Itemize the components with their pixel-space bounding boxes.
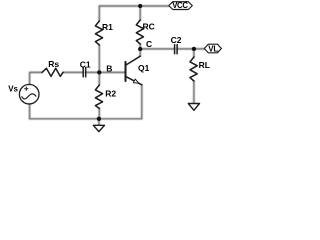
wire R1 bottom lead to node B xyxy=(98,45,100,72)
svg-text:C: C xyxy=(146,39,152,49)
wire C2 to node VL to VL flag xyxy=(177,48,204,50)
wire Vs bottom lead xyxy=(29,104,31,119)
svg-text:Vs: Vs xyxy=(8,85,18,94)
transistor Q1 collector diagonal xyxy=(126,56,140,65)
capacitor C1 xyxy=(82,68,84,77)
wire R2 bottom lead xyxy=(98,108,100,118)
wire RL bottom lead to ground xyxy=(193,81,195,103)
svg-text:R1: R1 xyxy=(102,22,113,32)
svg-text:C1: C1 xyxy=(80,59,91,69)
svg-text:C2: C2 xyxy=(171,35,182,45)
wire bottom rail Vs to emitter corner xyxy=(30,118,142,120)
wire RC top lead xyxy=(139,6,141,20)
svg-text:VL: VL xyxy=(208,44,218,53)
Vs plus sign xyxy=(25,87,28,90)
wire R2 top lead xyxy=(98,72,100,85)
resistor RL xyxy=(190,57,197,81)
wire R1 top lead xyxy=(98,6,100,21)
resistor Rs xyxy=(42,68,63,76)
svg-text:B: B xyxy=(106,63,112,73)
svg-text:Q1: Q1 xyxy=(138,63,150,73)
svg-text:Rs: Rs xyxy=(48,59,59,69)
transistor Q1 base bar xyxy=(125,62,127,81)
svg-text:VCC: VCC xyxy=(172,1,188,10)
voltage source Vs circle xyxy=(19,84,39,104)
wire RL top lead xyxy=(193,49,195,57)
resistor RC xyxy=(136,20,143,44)
wire top rail R1 top to RC top to VCC flag xyxy=(99,5,169,7)
capacitor C2 xyxy=(174,45,176,54)
transistor Q1 emitter arrowhead xyxy=(133,79,139,83)
junction dot node C xyxy=(138,47,142,51)
ground symbol right xyxy=(188,104,199,111)
resistor R1 xyxy=(95,21,102,45)
svg-text:RC: RC xyxy=(143,22,155,32)
resistor R2 xyxy=(95,85,102,108)
transistor Q1 emitter diagonal xyxy=(126,77,142,85)
svg-text:RL: RL xyxy=(199,60,210,70)
ground symbol left xyxy=(93,125,104,131)
wire RC bottom lead to node C xyxy=(139,44,141,49)
junction dot bottom ground xyxy=(97,117,101,121)
VL output flag xyxy=(204,44,221,53)
wire ground stub left xyxy=(98,119,100,125)
VCC power flag xyxy=(169,2,193,10)
wire Q1 emitter vertical to bottom rail xyxy=(141,85,143,119)
junction dot RC top xyxy=(138,4,142,8)
junction dot node B xyxy=(97,70,101,74)
wire node C to C2 xyxy=(140,48,174,50)
junction dot node VL xyxy=(192,47,196,51)
wire Vs top corner to Rs xyxy=(30,72,42,84)
svg-text:R2: R2 xyxy=(105,88,116,98)
Vs sine wave xyxy=(22,94,36,99)
wire Q1 collector vertical to node C xyxy=(139,49,141,56)
wire C1 to node B to Q1 base xyxy=(86,71,126,73)
wire Rs to C1 xyxy=(63,71,83,73)
